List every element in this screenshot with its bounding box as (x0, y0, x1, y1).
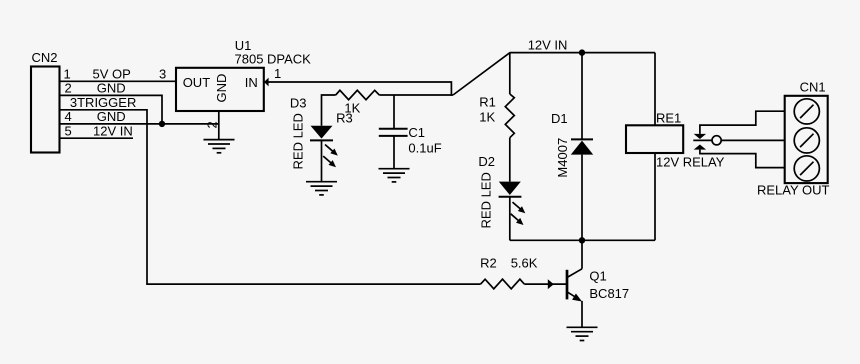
diode D1 M4007 (571, 53, 593, 241)
transistor Q1 BC817 (567, 240, 582, 327)
relay contact fixed terminal (bottom) (694, 145, 706, 150)
svg-text:OUT: OUT (183, 75, 211, 90)
junction GND (pin2/pin4) (159, 121, 165, 127)
connector CN1 (785, 96, 828, 183)
svg-text:1K: 1K (479, 109, 495, 124)
CN2 pin 5 stub (net 12V IN) (60, 137, 134, 139)
CN1 screw terminal 1 (794, 99, 819, 124)
svg-text:R1: R1 (479, 95, 496, 110)
wire R3 right to C1/12V (379, 94, 453, 96)
svg-text:D1: D1 (551, 111, 568, 126)
svg-text:D2: D2 (478, 154, 495, 169)
junction bottom rail / Q1 collector (579, 237, 585, 243)
svg-text:Q1: Q1 (589, 269, 606, 284)
U1 pin 2 wire to ground (218, 111, 220, 140)
wire R3 left to D3 (322, 95, 336, 126)
svg-text:RELAY OUT: RELAY OUT (757, 182, 830, 197)
resistor R1 1K (vertical) (505, 53, 514, 182)
bottom rail wire (510, 239, 655, 241)
svg-text:7805 DPACK: 7805 DPACK (235, 51, 312, 66)
LED D3 RED LED (310, 126, 333, 182)
relay contact wire to CN1 pin 3 (700, 150, 785, 168)
svg-text:R3: R3 (336, 110, 353, 125)
connector CN2 (31, 67, 60, 153)
svg-text:BC817: BC817 (589, 286, 629, 301)
svg-text:3: 3 (159, 67, 166, 82)
resistor R3 1K (336, 90, 380, 99)
svg-text:5.6K: 5.6K (511, 255, 538, 270)
svg-text:3TRIGGER: 3TRIGGER (70, 95, 136, 110)
svg-text:RE1: RE1 (656, 111, 681, 126)
ground symbol under C1 (379, 169, 410, 182)
LED D3 emission arrows (323, 145, 338, 168)
svg-text:D3: D3 (290, 96, 307, 111)
svg-text:12V IN: 12V IN (528, 38, 568, 53)
relay coil RE1 wires (654, 53, 656, 126)
svg-text:GND: GND (97, 81, 126, 96)
ground symbol under U1 (204, 140, 235, 153)
svg-text:5: 5 (65, 123, 72, 138)
relay contact wire to CN1 pin 1 (700, 111, 785, 134)
svg-text:2: 2 (65, 81, 72, 96)
svg-text:RED LED: RED LED (479, 172, 494, 228)
LED D2 RED LED (499, 182, 522, 241)
svg-text:CN2: CN2 (32, 50, 58, 65)
ground symbol under D3 (306, 182, 337, 195)
regulator U1 7805 DPACK (176, 68, 264, 111)
CN2 pin 2 wire (GND) (60, 95, 163, 124)
svg-text:R2: R2 (480, 255, 497, 270)
12V IN rail wire (510, 52, 655, 54)
svg-text:RED LED: RED LED (290, 113, 305, 169)
LED D2 emission arrows (511, 202, 526, 225)
svg-text:4: 4 (65, 109, 72, 124)
svg-text:0.1uF: 0.1uF (408, 141, 441, 156)
capacitor C1 0.1uF (379, 95, 408, 169)
svg-text:12V RELAY: 12V RELAY (656, 154, 725, 169)
svg-text:C1: C1 (408, 125, 425, 140)
wire R2 to Q1 base (524, 283, 567, 285)
svg-text:1: 1 (274, 66, 281, 81)
CN1 screw terminal 3 (794, 156, 819, 181)
diagonal wire to 12V rail (453, 53, 510, 95)
junction 12V rail / D1 (579, 49, 585, 55)
svg-text:GND: GND (214, 74, 229, 103)
CN2 pin 1 wire (net 5V OP) (60, 80, 177, 82)
svg-text:IN: IN (245, 75, 258, 90)
ground symbol under Q1 (567, 327, 598, 340)
svg-text:2: 2 (204, 121, 219, 128)
resistor R2 5.6K (481, 279, 525, 289)
svg-text:12V IN: 12V IN (93, 123, 133, 138)
wire U1 IN to 12V node (264, 82, 451, 96)
svg-text:GND: GND (97, 109, 126, 124)
CN2 pin 3 wire (TRIGGER) to R2 (60, 110, 481, 284)
CN1 screw terminal 2 (794, 128, 819, 153)
relay contact fixed terminal (top) (694, 134, 706, 139)
svg-text:CN1: CN1 (800, 79, 826, 94)
U1 pin 1 input arrow (264, 78, 269, 87)
svg-text:1: 1 (64, 67, 71, 82)
svg-text:M4007: M4007 (555, 138, 570, 178)
relay contact blade and common (693, 136, 784, 145)
Q1 base input arrow (548, 279, 554, 289)
CN2 pin 4 wire (GND) to U1 pin 2 (60, 123, 219, 125)
relay coil RE1 box (626, 125, 683, 153)
svg-text:5V OP: 5V OP (93, 67, 131, 82)
